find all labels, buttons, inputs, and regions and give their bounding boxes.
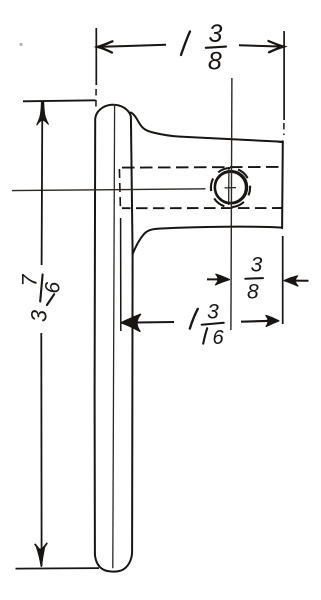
svg-text:6: 6 <box>212 327 224 349</box>
svg-text:8: 8 <box>208 48 222 76</box>
dim 3/8 right: extension line below flange corner <box>282 236 284 324</box>
flange bottom edge <box>133 227 283 254</box>
dim text 1 3/16 : numeral 1 (slash stroke) <box>190 309 198 329</box>
centerline dash at hole center <box>225 187 237 189</box>
hole dashed circle <box>211 168 250 207</box>
dim text 3 7/16 (rotated) : denominator 1 (slash stroke) <box>47 294 54 305</box>
dim 1-3/8 right extension line <box>283 31 285 120</box>
vertical centerline through hole <box>231 78 232 330</box>
flange right edge <box>281 141 284 228</box>
svg-text:7: 7 <box>17 273 41 286</box>
second overdrawn stroke of centerline inside hole <box>228 169 230 205</box>
dim 3-7/16 top extension line <box>23 100 96 101</box>
svg-text:8: 8 <box>247 281 259 304</box>
dim 1-3/16: left extension line (from hidden slot end) <box>120 218 122 331</box>
dim 1-3/8 line right segment + right arrow <box>239 45 284 46</box>
dim 3-7/16 bottom extension line <box>16 567 100 570</box>
dim text 1 3/16 : denominator 16 <box>203 328 207 343</box>
svg-text:3: 3 <box>209 20 223 48</box>
dim text 1 3/8 : fraction bar <box>206 47 226 48</box>
dim text 1 3/16 : fraction bar <box>202 323 224 325</box>
svg-text:3: 3 <box>27 309 52 322</box>
dim 3-7/16 line lower segment + down arrow <box>40 333 42 566</box>
flange top edge <box>131 113 283 142</box>
scan smudge <box>19 43 22 46</box>
dim 3-7/16 line upper segment + up arrow <box>41 106 44 265</box>
dim 1-3/16: left arrow (pointing left, large) <box>122 321 174 324</box>
svg-text:6: 6 <box>41 282 64 294</box>
handle outline (lever body) <box>95 105 133 572</box>
dim text 3 7/16 (rotated) : fraction slash <box>40 275 42 302</box>
handle centerline <box>113 104 115 568</box>
hidden slot bottom dashed line <box>122 207 283 209</box>
hole solid circle (drawn heavy) <box>215 172 246 203</box>
svg-text:3: 3 <box>207 301 219 324</box>
hidden slot top dashed line <box>122 166 283 169</box>
svg-text:3: 3 <box>251 253 263 276</box>
dim 1-3/8 left extension line <box>95 28 97 85</box>
dim 1-3/16: line right segment + right arrow (pointing right) <box>241 320 271 323</box>
hidden slot left end dashed vertical <box>119 169 120 208</box>
corner knot at flange top-right <box>278 141 284 143</box>
dim text 3/8 : fraction bar <box>245 277 263 280</box>
dim text 1 3/8 : numeral 1 (slash stroke) <box>181 32 190 56</box>
dim 1-3/8 line left segment + left arrow <box>98 45 166 47</box>
horizontal centerline through hole <box>12 189 206 191</box>
dim 3/8: right arrow (pointing left) <box>290 280 309 282</box>
dim 3/8: left arrow (pointing right) <box>207 278 224 280</box>
